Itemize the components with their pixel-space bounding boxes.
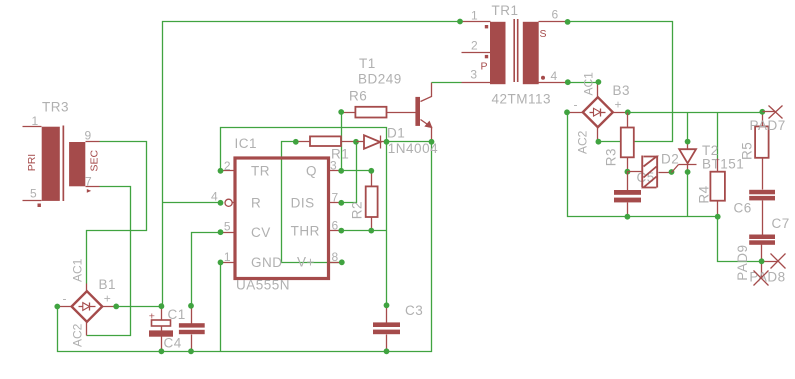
wire reset net from V+ rail to pin 4	[163, 202, 221, 204]
svg-text:T1: T1	[359, 56, 376, 71]
IC U1 timer IC1	[211, 136, 345, 293]
wire Q net: pin 3 up to R6 left	[341, 113, 343, 171]
svg-text:AC1: AC1	[582, 72, 596, 96]
svg-text:R6: R6	[349, 89, 367, 104]
wire B1 plus to C1	[117, 306, 163, 308]
svg-text:42TM113: 42TM113	[492, 92, 552, 107]
capacitor C4	[164, 303, 205, 354]
diac D2	[628, 152, 680, 188]
wire DIS net to D1 anode junction	[342, 142, 357, 203]
svg-text:1: 1	[471, 9, 478, 23]
transistor Q1 T1 BD249	[358, 56, 434, 145]
svg-text:7: 7	[332, 191, 339, 205]
svg-text:V+: V+	[297, 255, 315, 270]
wire THR net vertical down to C3	[386, 142, 388, 306]
svg-text:C1: C1	[168, 307, 186, 322]
svg-text:4: 4	[211, 190, 218, 204]
svg-text:C4: C4	[164, 336, 182, 351]
svg-text:1: 1	[224, 250, 231, 264]
svg-text:-: -	[63, 292, 67, 306]
svg-text:UA555N: UA555N	[236, 278, 290, 293]
wire ground bus from B1 minus along bottom	[58, 142, 432, 352]
svg-text:TR1: TR1	[492, 3, 519, 18]
wire B3 plus rail to R5/PAD7	[628, 112, 763, 114]
svg-text:9: 9	[85, 129, 92, 143]
svg-text:C5: C5	[637, 170, 655, 185]
svg-text:R2: R2	[350, 201, 365, 219]
wire THR row horizontal	[342, 230, 387, 232]
svg-text:4: 4	[551, 69, 558, 83]
svg-text:AC1: AC1	[71, 258, 85, 282]
wire B3 minus rail down and across to R4 bottom	[568, 113, 718, 217]
wire T2 cathode down to minus rail	[687, 173, 689, 217]
wire TR3 pin 9 to B1 AC1	[87, 142, 147, 284]
pad PAD8	[749, 254, 785, 285]
svg-text:PRI: PRI	[26, 154, 38, 172]
wire collector to TR1 pin 3	[432, 82, 462, 84]
svg-text:7: 7	[85, 174, 92, 188]
wire V+ net: R1 left down through IC to pin 8	[282, 142, 342, 263]
wire D1 cathode to emitter column	[387, 141, 432, 143]
wire CV net pin 5 down to C4	[192, 233, 221, 306]
resistor R3	[604, 113, 634, 175]
svg-text:TR: TR	[251, 164, 270, 179]
resistor R2	[350, 168, 378, 234]
wire branch plus rail down to R4 top	[717, 113, 719, 159]
svg-text:R5: R5	[740, 142, 755, 160]
pad PAD9	[735, 245, 769, 286]
resistor R4	[697, 159, 725, 220]
svg-text:AC2: AC2	[71, 323, 85, 347]
svg-text:2: 2	[471, 38, 478, 52]
svg-text:D1: D1	[387, 126, 405, 141]
svg-text:C3: C3	[405, 303, 423, 318]
diode D1 1N4004	[357, 126, 439, 157]
svg-text:B1: B1	[99, 277, 117, 292]
svg-text:BD249: BD249	[358, 72, 402, 87]
svg-text:GND: GND	[251, 255, 283, 270]
svg-text:1: 1	[32, 114, 39, 128]
resistor R5	[740, 109, 769, 190]
thyristor T2 BT151	[672, 139, 745, 175]
capacitor C3	[373, 302, 423, 354]
wire TR3 pin 7 to B1 AC2	[87, 187, 131, 336]
svg-text:DIS: DIS	[291, 196, 315, 211]
bridge rectifier B1	[54, 258, 119, 347]
svg-text:5: 5	[224, 219, 231, 233]
svg-text:8: 8	[332, 250, 339, 264]
transformer TR1 42TM113	[457, 3, 571, 107]
svg-text:S: S	[540, 28, 547, 40]
wire R4 bottom to C7 bottom pads	[718, 217, 762, 262]
capacitor C6	[734, 190, 776, 235]
svg-text:+: +	[104, 292, 111, 306]
svg-text:R: R	[251, 196, 261, 211]
pad PAD7	[750, 106, 786, 134]
svg-text:R1: R1	[331, 147, 349, 162]
svg-text:PAD7: PAD7	[750, 118, 786, 133]
svg-text:Q: Q	[306, 164, 317, 179]
svg-text:-: -	[574, 98, 578, 112]
wire V+ rail: top horizontal and long left vertical	[163, 22, 461, 307]
svg-text:BT151: BT151	[702, 157, 744, 172]
bridge rectifier B3	[564, 72, 631, 154]
svg-text:AC2: AC2	[576, 130, 590, 154]
svg-text:5: 5	[30, 187, 37, 201]
svg-text:THR: THR	[291, 224, 320, 239]
svg-text:C7: C7	[772, 216, 790, 231]
svg-text:CV: CV	[251, 225, 271, 240]
svg-text:3: 3	[470, 67, 477, 81]
svg-text:D2: D2	[661, 152, 679, 167]
svg-text:2: 2	[224, 159, 231, 173]
svg-text:IC1: IC1	[235, 136, 258, 151]
wire TR1 pin 4 to B3 AC1	[568, 82, 599, 84]
wire TR1 pin 6 to B3 AC2	[568, 22, 673, 142]
svg-text:SEC: SEC	[89, 149, 101, 171]
svg-text:P: P	[481, 61, 488, 73]
svg-text:B3: B3	[613, 83, 631, 98]
wire GND pin 1 down to bus	[220, 263, 222, 352]
svg-text:R3: R3	[604, 148, 619, 166]
svg-text:C6: C6	[734, 201, 752, 216]
svg-text:+: +	[149, 311, 155, 323]
wire TR net: pin 2 up, across, down to D1 cathode junction	[221, 128, 387, 171]
capacitor C7	[749, 216, 790, 262]
wire Q pin to R2 top	[342, 170, 372, 172]
resistor R6	[338, 89, 415, 118]
svg-text:6: 6	[552, 7, 559, 21]
capacitor C1	[149, 303, 186, 354]
svg-text:+: +	[615, 98, 622, 112]
capacitor C5	[614, 170, 655, 220]
transformer TR3	[23, 100, 101, 208]
svg-text:R4: R4	[697, 185, 712, 203]
svg-text:6: 6	[332, 218, 339, 232]
svg-text:TR3: TR3	[42, 100, 69, 115]
resistor R1	[293, 136, 359, 161]
wire branch plus rail down to T2 anode	[687, 113, 689, 142]
svg-text:PAD9: PAD9	[735, 245, 750, 281]
